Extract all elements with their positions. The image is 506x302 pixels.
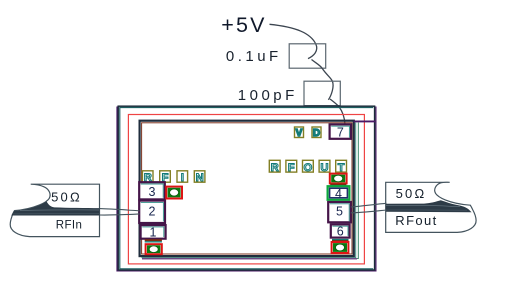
svg-text:100pF: 100pF [238, 87, 298, 104]
pin 7 box [330, 124, 351, 139]
connector J1 RFin body [10, 184, 99, 236]
pad P1 oval box below pin 1 [146, 244, 162, 254]
svg-text:V: V [296, 128, 303, 139]
svg-text:5: 5 [336, 204, 343, 218]
svg-text:I: I [181, 172, 184, 184]
svg-text:50Ω: 50Ω [396, 186, 427, 201]
pin 6 box [331, 224, 350, 238]
connector J2 bar lower streak [386, 209, 467, 211]
letter box U of RFOUT [319, 160, 330, 174]
capacitor C2 100pF body [304, 81, 340, 105]
svg-text:T: T [338, 162, 345, 174]
letter box D of VD [312, 127, 321, 139]
wire W5b from pin 5 to J2 [351, 210, 387, 213]
svg-text:0.1uF: 0.1uF [226, 48, 282, 65]
svg-text:6: 6 [337, 224, 344, 238]
pad bar under pin 6 [332, 240, 349, 243]
letter box N of RFIN [194, 171, 205, 184]
pin 2 box [139, 201, 165, 223]
package outer frame teal rect [120, 108, 373, 269]
letter box I of RFIN [177, 171, 188, 184]
pad P6 oval box below pin 6 [332, 242, 349, 253]
svg-text:F: F [288, 162, 295, 174]
package outer frame purple rect [117, 107, 376, 271]
wire W2 from C1 into C2 [312, 60, 334, 100]
svg-text:D: D [313, 128, 320, 139]
letter box V of VD [295, 127, 304, 139]
connector J1 bar highlight streak [20, 209, 99, 211]
svg-text:R: R [271, 162, 279, 174]
svg-text:RFIn: RFIn [56, 219, 83, 231]
connector J1 RFin center conductor bar [11, 201, 99, 215]
svg-text:50Ω: 50Ω [51, 190, 82, 205]
wire W1 from +5V into C1 [270, 24, 317, 58]
connector J2 bar highlight streak [386, 206, 460, 207]
wire W5a from pin 5 to J2 [351, 203, 387, 207]
letter box R of RFOUT [269, 160, 280, 174]
net VD purple wire from inner frame to outer frame [354, 120, 376, 122]
inner frame navy rect [140, 121, 354, 256]
connector J2 RFout body [386, 182, 476, 232]
pin 4 box [328, 186, 350, 201]
inner frame teal accent right [142, 123, 356, 258]
svg-text:7: 7 [337, 125, 344, 139]
letter box F of RFOUT [286, 160, 297, 174]
inner frame purple accent bottom [142, 258, 357, 260]
svg-text:N: N [196, 172, 204, 184]
svg-text:O: O [304, 162, 313, 174]
svg-text:1: 1 [150, 225, 157, 239]
wire W4b from J1 to pin 2 [100, 214, 140, 215]
pad P4 oval box above pin 4 [330, 174, 347, 184]
connector J1 bar lower streak [14, 213, 100, 215]
svg-text:2: 2 [149, 204, 156, 218]
svg-text:4: 4 [335, 187, 342, 201]
svg-text:+5V: +5V [221, 13, 266, 37]
package outer frame navy rect [118, 106, 374, 270]
inner frame maroon accent [142, 123, 352, 254]
pad P3 oval box next to pin 3 [166, 187, 182, 199]
letter box F of RFIN [160, 171, 171, 184]
inner frame green accent right [357, 123, 358, 259]
letter box O of RFOUT [303, 160, 314, 174]
svg-text:3: 3 [149, 185, 156, 199]
wire W3 from C2 to pin 7 [330, 99, 345, 124]
pin 5 box [328, 202, 351, 222]
letter box T of RFOUT [336, 160, 347, 174]
letter box R of RFIN [142, 171, 153, 184]
connector J2 RFout center conductor bar [386, 200, 472, 212]
package red frame [128, 115, 364, 264]
pin 1 box [141, 225, 166, 239]
svg-text:RFout: RFout [395, 213, 437, 228]
pad bar under pin 1 [145, 239, 162, 242]
capacitor C1 0.1uF body [289, 44, 326, 68]
pad bar between pad P4 and pin 4 [330, 184, 346, 186]
wire W4a from J1 to pin 2 [100, 209, 140, 211]
pin 3 box [139, 182, 165, 199]
svg-text:U: U [321, 162, 329, 174]
